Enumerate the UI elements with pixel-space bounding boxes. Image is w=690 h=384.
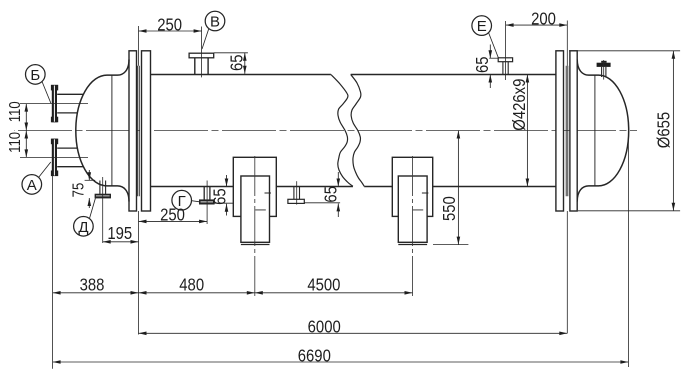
dimension 65 of V(В) <box>214 52 248 54</box>
nozzle A(А) center ext line <box>20 156 88 158</box>
nozzle E(Е) center line <box>505 21 507 80</box>
svg-text:4500: 4500 <box>307 276 340 295</box>
svg-text:А: А <box>27 177 37 194</box>
drain nozzle flange <box>288 199 304 203</box>
drain nozzle neck <box>294 187 300 200</box>
dimension 250 bottom <box>139 220 208 222</box>
vessel centerline <box>14 130 637 132</box>
saddle 2 base <box>398 244 427 246</box>
left girth flange pair <box>129 51 137 211</box>
svg-text:В: В <box>210 14 220 31</box>
svg-text:Ø655: Ø655 <box>654 112 673 148</box>
dimension 200 <box>506 24 568 26</box>
nozzle A(А) pipe <box>57 148 83 167</box>
nozzle D(Д) neck <box>100 181 106 195</box>
shell top wall <box>151 74 556 76</box>
nozzle B(Б) flange <box>51 85 58 122</box>
nozzle B(Б) pipe <box>57 94 83 113</box>
right head <box>577 60 629 202</box>
nozzle E(Е) flange <box>498 58 512 62</box>
break wavy lines <box>331 75 353 187</box>
svg-text:Е: Е <box>477 18 487 35</box>
nozzle G(Г) center line <box>206 181 208 225</box>
shell bottom wall <box>151 186 556 188</box>
label circle G(Г) <box>172 190 192 210</box>
leader G(Г) <box>192 201 200 202</box>
dimension F655 <box>569 50 680 52</box>
saddle 1 base <box>241 244 270 246</box>
svg-text:388: 388 <box>80 275 105 294</box>
saddle 1 ticks <box>255 193 271 210</box>
label circle A(А) <box>22 175 42 195</box>
left head tangent line <box>111 75 113 186</box>
saddle 1 outer <box>233 157 276 216</box>
svg-text:110: 110 <box>7 101 24 122</box>
nozzle D(Д) center line <box>102 177 104 243</box>
dimension F426x9 <box>526 75 528 187</box>
svg-text:200: 200 <box>531 9 556 28</box>
svg-text:6000: 6000 <box>308 318 341 337</box>
dimension 550 <box>433 244 468 246</box>
dimension 6690 <box>53 361 629 363</box>
dimension 65 of G(Г) <box>214 202 235 204</box>
svg-text:110: 110 <box>7 132 24 153</box>
dimension 110 bottom <box>25 131 27 158</box>
nozzle G(Г) flange <box>200 200 214 204</box>
right head tangent line <box>594 75 596 186</box>
saddle 2 centerline <box>412 156 414 297</box>
dimension 4500 <box>255 292 413 294</box>
svg-text:65: 65 <box>473 56 492 73</box>
nozzle D(Д) flange <box>95 194 110 198</box>
svg-text:250: 250 <box>157 15 182 34</box>
svg-text:75: 75 <box>71 183 88 198</box>
drain nozzle center line <box>296 181 298 204</box>
left flange gasket lines <box>138 66 140 196</box>
svg-text:550: 550 <box>440 196 459 221</box>
leader D(Д) <box>89 198 95 219</box>
svg-text:250: 250 <box>160 206 185 225</box>
leader E(Е) <box>489 33 499 58</box>
label circle V(В) <box>205 11 225 31</box>
nozzle V(В) neck <box>195 58 208 75</box>
dimension 65 of drain <box>304 202 340 204</box>
dimension 388 <box>53 292 139 294</box>
svg-text:Ø426x9: Ø426x9 <box>510 79 529 131</box>
svg-text:65: 65 <box>322 186 341 203</box>
ext line nozzle AB faces bottom <box>52 176 54 369</box>
saddle 2 ticks <box>413 193 429 210</box>
dimension 65 of E(Е) <box>489 57 498 59</box>
label circle B(Б) <box>26 65 46 85</box>
nozzle V(В) center line <box>201 27 203 78</box>
nozzle A(А) flange <box>51 139 58 177</box>
svg-text:6690: 6690 <box>298 346 331 365</box>
leader V(В) <box>202 29 209 49</box>
svg-text:Б: Б <box>30 67 40 84</box>
nozzle V(В) flange <box>189 53 214 58</box>
svg-text:Д: Д <box>78 219 88 236</box>
ext line right flange center top <box>566 21 568 66</box>
dimension 75 of D(Д) <box>85 179 96 181</box>
dimension 250 top <box>139 30 202 32</box>
ext line right flange center bottom <box>566 211 568 333</box>
saddle 1 centerline <box>254 156 256 297</box>
svg-text:65: 65 <box>210 188 229 205</box>
leader A(А) <box>39 162 51 177</box>
dimension 480 <box>139 292 255 294</box>
svg-text:65: 65 <box>227 54 246 71</box>
label circle E(Е) <box>472 16 492 36</box>
saddle 2 outer <box>392 157 432 216</box>
saddle 1 web <box>241 176 270 242</box>
nozzle E(Е) neck <box>503 62 508 75</box>
dimension 110 top <box>25 104 27 131</box>
dimension 195 <box>103 241 139 243</box>
dimension 6000 <box>139 332 568 334</box>
ext line head apex right <box>627 135 629 367</box>
svg-text:195: 195 <box>107 224 132 243</box>
svg-text:480: 480 <box>179 275 204 294</box>
head top fitting <box>597 60 611 80</box>
right girth flange pair <box>556 51 564 211</box>
saddle 2 web <box>398 176 427 242</box>
left head <box>76 60 129 202</box>
nozzle B(Б) center ext line <box>20 103 88 105</box>
label circle D(Д) <box>74 217 94 237</box>
right flange gasket lines <box>566 66 568 196</box>
nozzle G(Г) neck <box>204 187 210 201</box>
leader B(Б) <box>42 82 51 104</box>
ext line left flange center bottom <box>138 211 140 335</box>
ext line left flange center top <box>138 26 140 66</box>
